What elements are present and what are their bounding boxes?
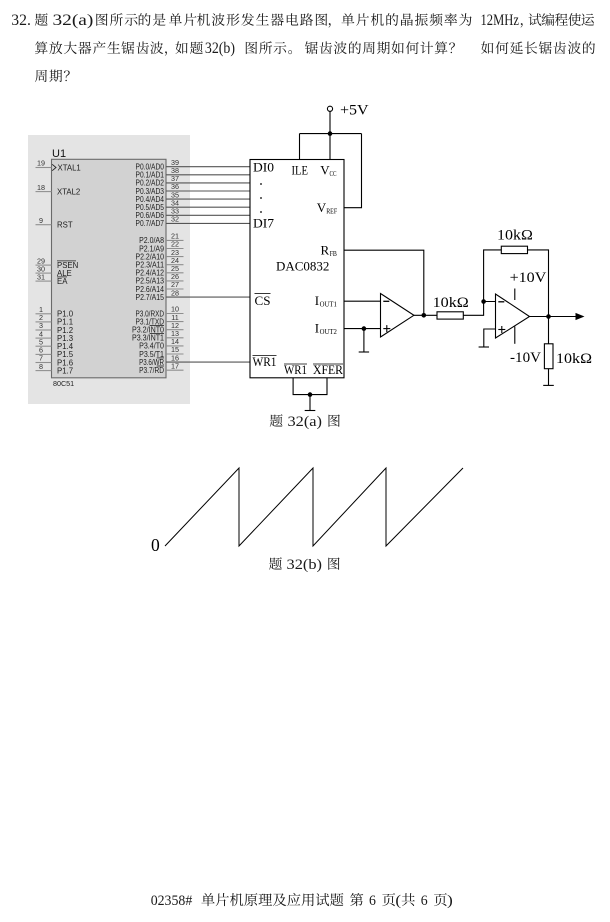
svg-text:10kΩ: 10kΩ xyxy=(556,351,592,367)
svg-text:10kΩ: 10kΩ xyxy=(497,228,533,244)
svg-text:32(b): 32(b) xyxy=(287,557,323,573)
svg-text:32(a): 32(a) xyxy=(288,414,323,430)
svg-text:6: 6 xyxy=(421,893,428,909)
svg-text:U1: U1 xyxy=(52,148,66,160)
svg-text:XTAL2: XTAL2 xyxy=(57,187,80,196)
U2 pin ILE label xyxy=(292,163,309,178)
sawtooth waveform xyxy=(165,468,463,546)
wire op-amp 2 non-inverting input to ground xyxy=(479,329,496,347)
resistor R3 10k load xyxy=(544,344,553,369)
wire +5V horizontal rail xyxy=(300,133,362,135)
wire to VREF xyxy=(344,134,362,208)
junction dot +5V rail xyxy=(328,131,333,136)
U1 pin 38 P0.1/AD1 (right) xyxy=(136,166,251,180)
U1 pin 30 ALE (left) xyxy=(36,264,72,278)
U1 pin 27 P2.6/A14 (right) xyxy=(136,280,184,294)
U1 pin 24 P2.3/A11 (right) xyxy=(136,256,184,270)
question text line 2 xyxy=(35,40,595,57)
U1 pin 18 XTAL2 (left) xyxy=(36,183,81,197)
svg-text:R: R xyxy=(321,243,330,258)
svg-text:EA: EA xyxy=(57,277,68,286)
wire to ILE xyxy=(299,134,301,160)
U2 pin VCC label xyxy=(320,163,336,179)
caption figure 32(b) xyxy=(269,557,340,573)
footer page label xyxy=(151,893,453,909)
U1 pin 11 P3.1/TXD (right) xyxy=(136,313,184,327)
U1 pin 10 P3.0/RXD (right) xyxy=(136,305,184,319)
svg-text:V: V xyxy=(317,200,327,215)
U1 microcontroller 80C51 gray background block xyxy=(28,135,190,404)
R2 value label 10k xyxy=(497,228,533,244)
U1 part label 80C51 xyxy=(53,379,74,388)
svg-text:P2.7/A15: P2.7/A15 xyxy=(136,293,165,302)
svg-text:FB: FB xyxy=(330,249,337,258)
wire op-amp 1 output xyxy=(414,314,437,316)
svg-text:9: 9 xyxy=(39,216,43,225)
junction dot output node xyxy=(546,314,551,319)
svg-text:8: 8 xyxy=(39,362,43,371)
svg-text:P0.7/AD7: P0.7/AD7 xyxy=(136,219,165,228)
U1 pin 19 XTAL1 (left) xyxy=(36,159,81,173)
U1 pin 12 P3.2/INT0 (right) xyxy=(132,321,184,335)
U1 pin 15 P3.5/T1 (right) xyxy=(139,345,183,359)
svg-text:DAC0832: DAC0832 xyxy=(276,259,329,273)
U1 pin 26 P2.5/A13 (right) xyxy=(136,272,184,286)
svg-text:-10V: -10V xyxy=(510,350,541,366)
svg-text:18: 18 xyxy=(37,183,45,192)
svg-text:OUT1: OUT1 xyxy=(320,300,338,309)
svg-text:DI0: DI0 xyxy=(253,160,274,175)
U1 pin 13 P3.3/INT1 (right) xyxy=(132,329,184,343)
svg-text:31: 31 xyxy=(37,272,45,281)
op-amp 2 negative supply pin xyxy=(514,327,516,344)
U1 pin 1 P1.0 (left) xyxy=(36,305,74,319)
U2 part label DAC0832 xyxy=(276,259,329,273)
U2 pin WR1 label (bottom) xyxy=(284,362,307,377)
+5V terminal circle xyxy=(327,106,332,111)
svg-text:17: 17 xyxy=(171,361,179,370)
U2 pin WR1 label (left) xyxy=(253,354,277,369)
svg-text:I: I xyxy=(315,293,319,308)
wires WR1 and XFER to ground xyxy=(293,378,327,395)
+5V label xyxy=(340,103,369,119)
U2 pin DI0 label xyxy=(253,160,274,175)
caption figure 32(a) xyxy=(270,414,340,430)
svg-text:WR1: WR1 xyxy=(253,354,277,369)
R1 value label 10k xyxy=(433,295,469,311)
svg-text:80C51: 80C51 xyxy=(53,379,74,388)
resistor R2 10k feedback xyxy=(501,246,527,253)
wire R1 to op-amp 2 inverting input xyxy=(463,302,495,316)
ground below R3 xyxy=(543,369,554,386)
wire RFB feedback xyxy=(344,250,424,315)
junction dot WR1/XFER ground node xyxy=(308,392,313,397)
junction dot op-amp 2 inverting node xyxy=(481,299,486,304)
U1 pin 37 P0.2/AD2 (right) xyxy=(136,174,251,188)
U1 pin 25 P2.4/A12 (right) xyxy=(136,264,184,278)
wire to VCC xyxy=(329,134,331,160)
U1 pin 34 P0.5/AD5 (right) xyxy=(136,198,251,212)
svg-text:REF: REF xyxy=(326,207,337,216)
U1 pin 5 P1.4 (left) xyxy=(36,337,74,351)
svg-text:10kΩ: 10kΩ xyxy=(433,295,469,311)
svg-text:ILE: ILE xyxy=(292,163,309,178)
question text line 1 xyxy=(11,12,594,29)
resistor R1 10k between op-amps xyxy=(437,312,463,319)
U1 pin 14 P3.4/T0 (right) xyxy=(139,337,183,351)
R3 value label 10k xyxy=(556,351,592,367)
question text line 3 xyxy=(35,70,70,82)
svg-text:CS: CS xyxy=(255,293,271,308)
svg-text:RST: RST xyxy=(57,221,73,230)
wire output node to R3 xyxy=(548,317,550,344)
svg-text:+10V: +10V xyxy=(510,270,547,286)
U1 pin 21 P2.0/A8 (right) xyxy=(139,232,183,246)
output arrow xyxy=(576,313,585,320)
wire op-amp 2 output xyxy=(530,316,578,318)
wire IOUT2 to op-amp 1 non-inverting input xyxy=(344,328,381,330)
svg-text:): ) xyxy=(447,893,453,909)
DI0..DI7 ellipsis dots xyxy=(260,183,262,213)
svg-text:12MHz: 12MHz xyxy=(481,12,519,29)
svg-text:+5V: +5V xyxy=(340,103,369,119)
U1 pin 35 P0.4/AD4 (right) xyxy=(136,190,251,204)
waveform origin label 0 xyxy=(151,535,160,555)
U1 pin 8 P1.7 (left) xyxy=(36,362,74,376)
ground at IOUT2 xyxy=(359,329,369,352)
U1 pin 32 P0.7/AD7 (right) xyxy=(136,215,251,229)
U1 pin 29 PSEN (left) xyxy=(36,256,79,270)
svg-text:P3.7/RD: P3.7/RD xyxy=(139,366,164,375)
svg-text:32(b): 32(b) xyxy=(205,40,235,57)
U1 pin 17 P3.7/RD (right) xyxy=(139,361,183,375)
U1 pin 22 P2.1/A9 (right) xyxy=(139,240,183,254)
op-amp A2 xyxy=(496,294,530,338)
+10V label xyxy=(510,270,547,286)
U1 pin 39 P0.0/AD0 (right) xyxy=(136,158,251,172)
U1 pin 2 P1.1 (left) xyxy=(36,313,74,327)
U2 pin VREF label xyxy=(317,200,338,216)
svg-text:XTAL1: XTAL1 xyxy=(58,163,81,172)
U2 pin DI7 label xyxy=(253,216,275,231)
U1 reference designator label xyxy=(52,148,66,160)
U1 chip body xyxy=(52,159,167,377)
op-amp A1 xyxy=(381,294,414,338)
svg-text:CC: CC xyxy=(330,169,337,178)
svg-text:28: 28 xyxy=(171,288,179,297)
U1 pin 16 P3.6/WR (right) xyxy=(139,353,250,367)
svg-text:(: ( xyxy=(395,893,401,909)
wire IOUT1 to op-amp 1 inverting input xyxy=(344,300,381,302)
svg-text:OUT2: OUT2 xyxy=(320,327,338,336)
svg-text:P1.7: P1.7 xyxy=(57,366,73,375)
svg-text:32: 32 xyxy=(171,215,179,224)
svg-text:32(a): 32(a) xyxy=(53,12,94,29)
U1 pin 28 P2.7/A15 (right) xyxy=(136,288,251,302)
svg-text:I: I xyxy=(315,321,319,336)
svg-text:19: 19 xyxy=(37,159,45,168)
U2 DAC0832 body xyxy=(250,160,344,378)
svg-text:02358#: 02358# xyxy=(151,893,193,909)
svg-text:6: 6 xyxy=(369,893,376,909)
wire +5V vertical to junction xyxy=(329,111,331,133)
U2 pin XFER label (bottom) xyxy=(313,362,343,377)
U1 pin 9 RST (left) xyxy=(36,216,73,230)
U1 pin 23 P2.2/A10 (right) xyxy=(136,248,184,262)
-10V label xyxy=(510,350,541,366)
U1 pin 31 EA (left) xyxy=(36,272,69,286)
junction dot on IOUT2 wire xyxy=(362,326,367,331)
U2 pin RFB label xyxy=(321,243,337,259)
junction dot op-amp 1 output node xyxy=(422,313,427,318)
U2 pin IOUT1 label xyxy=(315,293,337,309)
U1 pin 4 P1.3 (left) xyxy=(36,329,74,343)
U2 pin CS label xyxy=(255,293,271,308)
svg-text:DI7: DI7 xyxy=(253,216,275,231)
U1 pin 36 P0.3/AD3 (right) xyxy=(136,182,251,196)
op-amp 2 positive supply pin xyxy=(514,289,516,301)
U1 pin 33 P0.6/AD6 (right) xyxy=(136,207,251,221)
U2 pin IOUT2 label xyxy=(315,321,337,337)
svg-text:0: 0 xyxy=(151,535,160,555)
U1 pin 7 P1.6 (left) xyxy=(36,354,74,368)
ground below DAC xyxy=(305,395,316,411)
U1 pin 3 P1.2 (left) xyxy=(36,321,74,335)
svg-text:32.: 32. xyxy=(11,12,31,29)
wire feedback loop of op-amp 2 xyxy=(484,250,549,317)
U1 pin 6 P1.5 (left) xyxy=(36,346,74,360)
